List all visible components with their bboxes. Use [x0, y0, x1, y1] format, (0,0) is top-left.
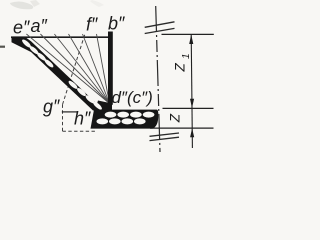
vertex filler at d'' [95, 101, 112, 111]
dimension line Z tail [191, 108, 193, 148]
dashed horizontal under bar [63, 130, 97, 132]
svg-text:Z: Z [173, 63, 188, 73]
svg-text:g″: g″ [43, 96, 60, 116]
dimension line Z1 [190, 35, 193, 109]
fan lines from d'' [26, 34, 109, 104]
arrow down at middle line [190, 99, 194, 108]
right thick edge b''-d'' [108, 32, 113, 105]
arrow up at top line [189, 35, 193, 45]
center line (dash-dot) [156, 6, 160, 152]
svg-text:h″: h″ [74, 109, 91, 129]
svg-text:Z: Z [168, 113, 183, 123]
svg-text:e″: e″ [13, 18, 30, 38]
svg-text:1: 1 [181, 53, 192, 59]
top edge e''-b'' [11, 36, 112, 38]
dashed projection line f'' to h'' [63, 35, 85, 105]
rivet holes bottom bar top row [105, 112, 155, 118]
break mark top [145, 22, 175, 34]
svg-text:f″: f″ [86, 15, 98, 35]
dashed vertical at g''/h'' [62, 105, 64, 132]
bottom horizontal bar [91, 110, 159, 129]
rivet slots in band [21, 38, 103, 111]
svg-text:d″(c″): d″(c″) [112, 88, 153, 107]
hypotenuse riveted band (tapered) [12, 37, 98, 111]
svg-text:a″: a″ [31, 16, 48, 36]
arrow up at bottom line (outside) [190, 128, 194, 137]
extension line middle [163, 107, 214, 109]
extension line bottom [150, 127, 214, 129]
h'' tick [62, 111, 77, 113]
rivet holes bottom bar bottom row [97, 118, 146, 124]
scan smudge top-left [10, 2, 33, 10]
break mark bottom [150, 133, 180, 141]
svg-text:b″: b″ [108, 14, 125, 34]
extension line top [162, 33, 214, 35]
left margin tick [0, 46, 5, 48]
